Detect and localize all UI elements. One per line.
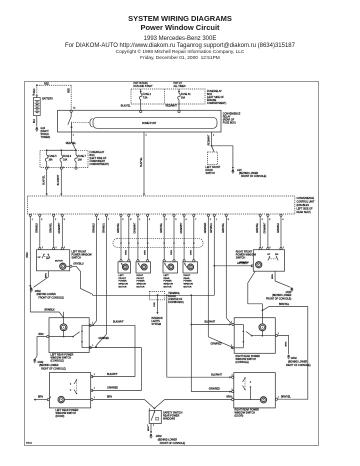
svg-text:MOTOR: MOTOR bbox=[137, 287, 145, 289]
svg-text:1: 1 bbox=[216, 219, 217, 221]
svg-text:BLK: BLK bbox=[34, 118, 36, 123]
svg-text:GRN/RED: GRN/RED bbox=[209, 388, 220, 391]
svg-text:DN: DN bbox=[46, 258, 50, 260]
svg-text:WINDOW: WINDOW bbox=[184, 284, 194, 286]
svg-text:GRN/BLK: GRN/BLK bbox=[93, 222, 95, 233]
svg-text:5: 5 bbox=[64, 219, 65, 221]
svg-text:30A: 30A bbox=[181, 96, 186, 99]
svg-text:FRONT: FRONT bbox=[137, 278, 145, 280]
svg-text:BATTERY: BATTERY bbox=[42, 98, 53, 101]
svg-text:1: 1 bbox=[231, 345, 232, 347]
svg-text:1: 1 bbox=[64, 247, 65, 249]
svg-text:RED: RED bbox=[44, 82, 49, 85]
svg-text:7: 7 bbox=[108, 219, 109, 221]
svg-text:1: 1 bbox=[48, 167, 49, 169]
svg-text:POWER: POWER bbox=[137, 281, 146, 283]
svg-text:1: 1 bbox=[232, 389, 233, 391]
svg-text:BRN: BRN bbox=[107, 397, 112, 399]
svg-text:RIGHT: RIGHT bbox=[184, 275, 191, 277]
svg-text:FRONT OF CONSOLE): FRONT OF CONSOLE) bbox=[39, 297, 65, 300]
svg-text:4: 4 bbox=[186, 219, 187, 221]
svg-text:1: 1 bbox=[278, 333, 279, 335]
svg-text:WINDOWS: WINDOWS bbox=[163, 417, 175, 420]
svg-text:GRN/YEL: GRN/YEL bbox=[51, 222, 53, 233]
svg-text:BLOCK: BLOCK bbox=[168, 296, 176, 298]
svg-text:BRN: BRN bbox=[148, 426, 150, 431]
svg-text:1: 1 bbox=[146, 135, 147, 137]
svg-text:1: 1 bbox=[50, 397, 51, 399]
svg-text:MOTOR: MOTOR bbox=[184, 287, 192, 289]
svg-text:GRY/BLU: GRY/BLU bbox=[211, 223, 213, 233]
svg-text:FRONT OF CONSOLE): FRONT OF CONSOLE) bbox=[266, 298, 292, 301]
svg-text:WINDOW: WINDOW bbox=[164, 284, 174, 286]
svg-text:POWER: POWER bbox=[119, 281, 128, 283]
svg-text:BRN: BRN bbox=[39, 334, 44, 336]
svg-text:BLK/WHT: BLK/WHT bbox=[57, 174, 60, 185]
svg-text:FRONT OF CONSOLE): FRONT OF CONSOLE) bbox=[241, 175, 267, 178]
svg-text:BRN: BRN bbox=[285, 341, 287, 346]
svg-text:DN: DN bbox=[275, 254, 279, 256]
svg-text:1: 1 bbox=[231, 322, 232, 324]
svg-text:UP: UP bbox=[267, 254, 271, 256]
svg-text:3: 3 bbox=[41, 219, 42, 221]
svg-text:8: 8 bbox=[130, 219, 131, 221]
svg-text:GRN/YEL: GRN/YEL bbox=[161, 222, 163, 233]
svg-text:GRN: GRN bbox=[126, 250, 128, 255]
svg-text:BLK/WHT: BLK/WHT bbox=[211, 373, 222, 376]
svg-text:1: 1 bbox=[94, 374, 95, 376]
svg-text:BLK/YEL: BLK/YEL bbox=[43, 174, 46, 184]
svg-text:GRN/WHT: GRN/WHT bbox=[265, 222, 267, 234]
svg-text:RIGHT: RIGHT bbox=[137, 275, 144, 277]
svg-text:3: 3 bbox=[262, 219, 263, 221]
svg-text:GRN/BLU: GRN/BLU bbox=[103, 223, 105, 234]
svg-text:5: 5 bbox=[269, 219, 270, 221]
svg-text:BRN: BRN bbox=[272, 274, 274, 279]
svg-text:1: 1 bbox=[262, 247, 263, 249]
svg-text:BLK/WHT: BLK/WHT bbox=[113, 321, 124, 324]
svg-text:SWITCH: SWITCH bbox=[206, 172, 216, 175]
svg-text:BRN/YEL: BRN/YEL bbox=[279, 303, 290, 306]
svg-text:BRN/BLK: BRN/BLK bbox=[45, 308, 56, 311]
svg-text:MOTOR: MOTOR bbox=[164, 287, 172, 289]
svg-text:1: 1 bbox=[42, 247, 43, 249]
svg-text:PNK: PNK bbox=[154, 302, 156, 307]
svg-text:BLK/YEL: BLK/YEL bbox=[121, 105, 131, 108]
svg-text:1: 1 bbox=[92, 322, 93, 324]
svg-text:7: 7 bbox=[195, 219, 196, 221]
svg-text:GRN/WHT: GRN/WHT bbox=[181, 222, 183, 234]
svg-text:(CENTER OF: (CENTER OF bbox=[168, 299, 183, 301]
svg-text:INTERIOR: INTERIOR bbox=[152, 318, 163, 320]
svg-text:SWITCH: SWITCH bbox=[72, 256, 82, 259]
svg-text:GRN/RED: GRN/RED bbox=[99, 338, 110, 340]
svg-text:4: 4 bbox=[98, 219, 99, 221]
svg-text:MOTOR: MOTOR bbox=[55, 261, 63, 263]
svg-text:GRN/YEL: GRN/YEL bbox=[223, 222, 225, 233]
svg-text:1: 1 bbox=[153, 424, 154, 426]
svg-text:DOME IP-INT: DOME IP-INT bbox=[142, 123, 157, 125]
svg-text:BRN: BRN bbox=[45, 273, 47, 278]
svg-text:GRN/WHT: GRN/WHT bbox=[135, 222, 137, 234]
svg-text:DASHBOARD): DASHBOARD) bbox=[168, 301, 184, 304]
svg-text:1: 1 bbox=[232, 397, 233, 399]
svg-text:FUSE 7: FUSE 7 bbox=[78, 156, 87, 158]
svg-text:UP: UP bbox=[38, 257, 42, 259]
svg-text:BRN/YEL: BRN/YEL bbox=[281, 396, 292, 398]
svg-text:REAR: REAR bbox=[184, 277, 190, 280]
svg-text:GRN: GRN bbox=[171, 250, 173, 255]
svg-text:RIGHT OF CONSOLE): RIGHT OF CONSOLE) bbox=[286, 364, 311, 367]
svg-text:RED: RED bbox=[69, 88, 71, 93]
svg-text:GRN: GRN bbox=[191, 250, 193, 255]
svg-text:7.5A: 7.5A bbox=[143, 96, 148, 99]
svg-text:GRN/WHT: GRN/WHT bbox=[59, 222, 61, 234]
svg-text:GRN: GRN bbox=[144, 250, 146, 255]
svg-text:WINDOW: WINDOW bbox=[119, 284, 129, 286]
svg-text:1: 1 bbox=[139, 219, 140, 221]
svg-text:30: 30 bbox=[33, 94, 35, 96]
svg-text:LEFT: LEFT bbox=[119, 275, 125, 277]
svg-text:MOTOR: MOTOR bbox=[119, 287, 127, 289]
svg-text:2: 2 bbox=[166, 219, 167, 221]
svg-text:BRN: BRN bbox=[27, 252, 29, 257]
svg-text:(CONSOLE): (CONSOLE) bbox=[236, 361, 249, 364]
svg-text:GRN/BLK: GRN/BLK bbox=[37, 222, 39, 233]
svg-text:16A: 16A bbox=[49, 158, 54, 161]
svg-text:COMPARTMENT): COMPARTMENT) bbox=[207, 102, 227, 105]
svg-text:RED/YEL: RED/YEL bbox=[66, 142, 77, 145]
svg-text:GRY/BLU: GRY/BLU bbox=[239, 262, 249, 264]
svg-text:POWER: POWER bbox=[184, 281, 193, 283]
svg-text:GRN/RED: GRN/RED bbox=[205, 222, 207, 233]
svg-text:FUSE 5: FUSE 5 bbox=[49, 156, 58, 158]
svg-text:3: 3 bbox=[149, 219, 150, 221]
svg-text:SYSTEM: SYSTEM bbox=[152, 324, 162, 326]
svg-text:GRN/RED: GRN/RED bbox=[211, 343, 222, 346]
svg-text:1: 1 bbox=[92, 345, 93, 347]
svg-text:RED/WHT: RED/WHT bbox=[208, 134, 210, 145]
svg-text:TERMINAL: TERMINAL bbox=[168, 292, 180, 295]
svg-text:SWITCH: SWITCH bbox=[236, 256, 246, 259]
svg-text:POWER: POWER bbox=[164, 281, 173, 283]
svg-text:6: 6 bbox=[228, 219, 229, 221]
svg-text:5: 5 bbox=[175, 219, 176, 221]
svg-text:6: 6 bbox=[122, 219, 123, 221]
svg-text:2: 2 bbox=[210, 219, 211, 221]
svg-text:GRN/RED: GRN/RED bbox=[107, 387, 118, 390]
svg-text:LEFT: LEFT bbox=[164, 275, 170, 277]
svg-text:15: 15 bbox=[73, 108, 75, 110]
svg-text:FUSE 6: FUSE 6 bbox=[63, 156, 72, 158]
svg-text:1: 1 bbox=[94, 388, 95, 390]
svg-text:RIGHT OF CONSOLE): RIGHT OF CONSOLE) bbox=[41, 368, 66, 371]
svg-text:RED/WHT: RED/WHT bbox=[166, 105, 178, 108]
svg-text:(DOOR): (DOOR) bbox=[56, 415, 65, 418]
svg-text:RED: RED bbox=[34, 88, 36, 93]
svg-text:GRN/YEL: GRN/YEL bbox=[118, 222, 120, 233]
svg-text:FRONT OF CONSOLE): FRONT OF CONSOLE) bbox=[160, 442, 186, 445]
svg-text:1: 1 bbox=[73, 135, 74, 137]
svg-text:LIGHTS: LIGHTS bbox=[152, 321, 161, 323]
svg-text:1: 1 bbox=[270, 247, 271, 249]
svg-text:1: 1 bbox=[232, 374, 233, 376]
svg-text:BLK/WHT: BLK/WHT bbox=[205, 321, 216, 324]
svg-text:GRN/BLK: GRN/BLK bbox=[278, 222, 280, 233]
svg-text:FRONT: FRONT bbox=[119, 278, 127, 280]
svg-text:REAR: REAR bbox=[164, 277, 170, 280]
svg-text:1: 1 bbox=[283, 247, 284, 249]
svg-text:16A: 16A bbox=[78, 158, 83, 161]
svg-text:BLK/WHT: BLK/WHT bbox=[107, 373, 118, 376]
svg-text:45811: 45811 bbox=[26, 443, 33, 445]
svg-text:WINDOW: WINDOW bbox=[137, 284, 147, 286]
svg-text:TOWER): TOWER) bbox=[41, 136, 51, 139]
svg-text:4: 4 bbox=[282, 219, 283, 221]
svg-text:(CONSOLE): (CONSOLE) bbox=[51, 360, 64, 363]
svg-text:ALL TIMES: ALL TIMES bbox=[174, 85, 186, 88]
svg-text:1: 1 bbox=[63, 167, 64, 169]
svg-text:BRN: BRN bbox=[38, 397, 43, 399]
svg-text:1: 1 bbox=[278, 397, 279, 399]
svg-text:1: 1 bbox=[213, 135, 214, 137]
svg-text:(DOOR): (DOOR) bbox=[235, 415, 244, 418]
svg-text:2: 2 bbox=[55, 219, 56, 221]
svg-text:1: 1 bbox=[94, 397, 95, 399]
svg-text:GRN/YEL: GRN/YEL bbox=[257, 222, 259, 233]
svg-text:FUSE BOX): FUSE BOX) bbox=[223, 122, 236, 125]
svg-text:BLK/YEL: BLK/YEL bbox=[140, 156, 143, 166]
svg-text:COMPARTMENT): COMPARTMENT) bbox=[90, 163, 110, 166]
svg-text:RUN AND START: RUN AND START bbox=[134, 85, 154, 88]
svg-text:GRY/BLU: GRY/BLU bbox=[73, 263, 84, 266]
svg-text:16A: 16A bbox=[63, 158, 68, 161]
svg-text:1: 1 bbox=[32, 219, 33, 221]
svg-text:REAR SEAT): REAR SEAT) bbox=[297, 211, 311, 214]
svg-text:1: 1 bbox=[56, 247, 57, 249]
